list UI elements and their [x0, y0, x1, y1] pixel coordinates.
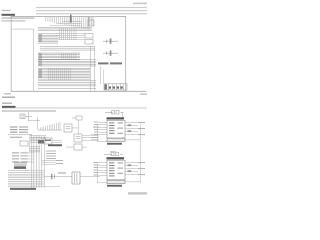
IC01 left return wire — [97, 124, 107, 142]
sheet frame top border — [11, 15, 126, 18]
connector pin rows R2 — [38, 34, 58, 44]
label CN05 dark — [48, 144, 62, 146]
connector pin rows R4 — [38, 53, 80, 60]
section heading rule — [2, 107, 147, 110]
header rule 2 — [36, 10, 147, 11]
wire rows R1 — [38, 27, 92, 31]
transistor Q1 symbol on wire — [51, 174, 55, 179]
component boxes right of bus — [85, 34, 93, 45]
IC02 right pins and parts — [125, 162, 145, 175]
inner divider horizontal — [11, 28, 34, 31]
sheet bottom rule — [11, 90, 146, 93]
component symbol S1 (crystal) — [103, 38, 118, 43]
wire staircase steps in bus — [50, 21, 82, 26]
connector CN3 box — [72, 172, 80, 184]
wire long bottom — [8, 185, 60, 188]
IC01 left pins — [94, 122, 107, 136]
header rule 3 — [36, 13, 147, 14]
section heading top-left small text — [2, 10, 11, 11]
header tiny text top-right — [133, 3, 147, 5]
page number right — [140, 94, 147, 95]
wire vertical risers — [90, 46, 95, 91]
IC01 right pins and parts — [125, 122, 145, 135]
wire B1 to vertical riser — [72, 120, 79, 134]
connector CN2 dark label — [14, 166, 26, 169]
component box B1 — [64, 124, 72, 132]
wire stubs right of bus — [42, 160, 63, 165]
component box left — [20, 141, 28, 146]
wire rows under comb — [58, 33, 85, 40]
section heading 5-3 — [2, 106, 16, 108]
wire comb ramp center-top — [38, 122, 62, 130]
wire from CN3 right — [80, 175, 100, 178]
sheet frame left border — [10, 16, 13, 91]
wire drops to title block — [100, 66, 104, 84]
component symbol S2 (crystal) — [103, 50, 118, 55]
title block table — [104, 84, 127, 90]
IC02 body — [107, 160, 125, 180]
wire long horizontal near bottom — [38, 87, 96, 90]
wire vertical left of comb — [36, 117, 39, 130]
header rule 1 — [36, 7, 147, 8]
IC02 left pins — [94, 162, 108, 176]
label NOVA B GRAYSCALE — [98, 62, 122, 64]
net labels group left — [8, 126, 32, 137]
wire from K1 — [25, 112, 40, 121]
small box above B1 — [72, 116, 82, 120]
IC02 bottom bar component — [107, 180, 140, 183]
pin rows bottom-left comb — [8, 170, 44, 185]
label under IC02 — [107, 185, 122, 187]
section heading top description — [2, 18, 35, 19]
IC box B2 with dark mark — [44, 138, 52, 144]
wire bus comb below top border — [45, 17, 89, 30]
section heading top description line 2 — [2, 20, 26, 21]
section small text — [2, 103, 12, 104]
component box D — [66, 144, 87, 150]
caption line 2 — [2, 97, 15, 98]
wire right vertical bus — [139, 124, 142, 183]
wire rows R7 — [38, 81, 96, 87]
connector pin rows R6 — [38, 68, 90, 80]
sheet frame right border — [124, 16, 127, 91]
wires B2 right — [52, 140, 62, 143]
wire long horizontal to CN3 — [44, 175, 72, 178]
caption text under sheet left — [4, 93, 11, 94]
section heading top-left dark — [2, 14, 16, 16]
resonator symbol above IC02 — [104, 151, 123, 156]
vertical bus lines bottom — [31, 136, 45, 188]
block A dense rows — [29, 134, 46, 152]
component K1 small box top-left — [20, 114, 25, 119]
bus end marks right — [88, 17, 94, 26]
wires C to labels — [82, 127, 99, 141]
page footer label bottom-right — [128, 192, 147, 194]
IC01 bottom bar component — [107, 138, 140, 141]
wire vertical comb V1 — [59, 28, 76, 40]
component box C — [74, 134, 82, 142]
IC01 body — [107, 120, 125, 138]
inner divider vertical — [32, 29, 35, 91]
small text rows above CN2 — [14, 162, 27, 165]
dark label bar bottom-left — [10, 188, 36, 190]
label under IC01 — [107, 143, 122, 145]
label IC02 dark — [107, 157, 125, 159]
resonator symbol above IC01 — [105, 111, 124, 119]
dark accent vertical in bus — [70, 15, 72, 23]
wire rows R3 — [40, 46, 95, 50]
section description text — [2, 110, 56, 111]
IC02 left return wire — [97, 164, 107, 183]
label IC01 dark — [107, 117, 125, 119]
wire rows R5 — [38, 60, 96, 67]
text rows right of block A — [46, 151, 56, 160]
net label rows with leaders bottom-left — [12, 152, 34, 162]
label above wire — [58, 172, 66, 173]
